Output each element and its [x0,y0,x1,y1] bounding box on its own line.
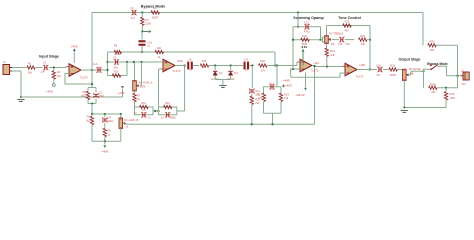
U2A inverting input wire [291,69,300,77]
summing box right edge [320,27,322,40]
svg-text:C12: C12 [269,81,274,85]
tone box top edge with R23 [326,26,328,36]
svg-text:TL072: TL072 [311,69,319,73]
svg-text:1k2: 1k2 [86,118,91,122]
svg-text:4k7: 4k7 [344,28,349,32]
capacitor C13 polarized [244,62,246,70]
svg-text:22k: 22k [255,101,260,105]
svg-text:7u: 7u [147,44,150,48]
svg-text:Input Stage: Input Stage [39,55,59,59]
resistor R3 [141,13,143,18]
svg-text:560k: 560k [114,52,120,56]
supply +4V5 near C12 [282,84,285,87]
capacitor C12 [270,84,272,89]
treble wiper wire [332,39,339,41]
resistor R8 on upper bus [114,50,121,53]
svg-text:C13: C13 [244,58,249,62]
C12 box left edge with R17 [263,87,265,93]
wire upper-mid bus [108,51,276,53]
U1B inverting input drop wire [158,69,160,111]
potentiometer RV TREBLE [325,36,329,44]
svg-text:R5: R5 [83,90,87,94]
resistor R4 on top bus [151,11,159,14]
svg-text:R6: R6 [87,115,91,119]
svg-text:C8: C8 [108,115,112,119]
U1B output wire [175,65,186,67]
op-amp U2B [345,63,357,76]
svg-text:R21: R21 [330,49,335,53]
wire R30 to jack riser [435,44,458,46]
svg-text:50n: 50n [114,65,119,69]
svg-text:R1: R1 [28,61,32,65]
capacitor C10 [305,24,307,29]
resistor R26 [389,68,397,71]
capacitor C8 [104,114,106,117]
wire R18 to U2A [267,65,297,67]
bottom branch with R13 [108,75,128,77]
supply +4V5 bottom arrow [104,141,106,144]
svg-text:560R: 560R [390,73,396,77]
svg-text:C16: C16 [147,40,152,44]
treble pot bottom to R21 [326,44,328,48]
svg-text:12k: 12k [331,42,336,46]
svg-text:C10: C10 [304,21,309,25]
svg-text:100n: 100n [99,94,105,98]
svg-text:1M: 1M [57,74,61,78]
resistor R24 [359,38,367,41]
U2A output wire [312,65,315,67]
svg-text:3n9: 3n9 [345,43,350,46]
resistor R6 [91,114,93,116]
svg-text:1k8: 1k8 [330,53,335,57]
svg-text:R28: R28 [450,92,455,96]
svg-text:560R: 560R [152,16,158,20]
capacitor C6 polarized vertical [139,40,146,42]
C12 box top edge [264,86,282,88]
svg-text:+4V5: +4V5 [71,44,78,48]
C12 box bottom edge [264,112,282,114]
ground at input jack [20,96,22,98]
connector J2 output jack [463,72,469,80]
svg-text:+18.2V: +18.2V [295,93,304,97]
svg-text:TL072: TL072 [356,74,364,78]
wire C1 to node A, junction [49,67,66,69]
svg-text:R7: R7 [137,93,141,97]
riser from row to C12 box [276,66,278,87]
svg-text:27k: 27k [258,96,263,100]
resistor R9 [103,128,106,136]
wire R26 to RV LEVEL pot [398,69,405,71]
svg-text:560k: 560k [302,42,308,46]
U1A inverting input loop wire [65,74,92,85]
mid row wire [108,61,161,63]
svg-text:R16: R16 [202,59,207,63]
svg-text:R2: R2 [57,70,61,74]
svg-text:1k: 1k [158,55,161,59]
svg-text:560k: 560k [170,117,176,120]
wire R16 to diode junctions [209,65,243,67]
svg-text:RV-LEVEL: RV-LEVEL [409,67,422,71]
svg-text:Rn-GAIN_A: Rn-GAIN_A [139,80,153,84]
C12 box right edge with R19 [280,87,282,93]
svg-text:TL072: TL072 [80,75,88,79]
svg-text:2uF: 2uF [41,70,46,74]
wire down to C6 vertical cap [141,32,143,40]
ground under diodes [219,85,226,87]
svg-text:J1: J1 [3,60,6,64]
svg-text:R8: R8 [114,44,118,48]
resistor R15 [250,96,253,104]
resistor R5 [87,88,89,92]
svg-text:10k: 10k [431,90,436,94]
svg-text:R12: R12 [165,101,170,105]
svg-text:U1B: U1B [177,59,183,63]
wire switch common to jack node [439,66,446,75]
svg-text:C2: C2 [130,6,134,10]
resistor R28 [445,88,447,92]
wiper wire of Rn-GAIN_A [140,85,142,87]
gain bus riser to U2A output [314,67,316,125]
svg-text:Rn-GAIN_B: Rn-GAIN_B [125,118,139,122]
diode D3 [230,66,232,71]
svg-text:C11: C11 [255,89,260,93]
junction between RC blocks [153,110,159,112]
svg-text:Out: Out [462,82,466,86]
svg-text:1M2: 1M2 [81,94,87,98]
svg-text:1u: 1u [148,116,151,119]
output ground bus [404,107,446,109]
wire R1 to C1 [36,67,43,69]
wire R29 to jack node riser [457,76,459,88]
resistor R2 [53,68,55,71]
svg-text:R19: R19 [284,92,289,96]
R5 C3 bottom edge [88,103,96,105]
svg-text:Output Stage: Output Stage [399,58,421,62]
svg-text:R4: R4 [153,6,157,10]
svg-text:D2: D2 [219,71,223,75]
svg-text:4u7: 4u7 [376,73,381,77]
capacitor C2 on top bus [132,10,134,15]
svg-text:470p: 470p [304,30,310,34]
svg-text:C14: C14 [338,43,343,46]
wire C6 to R16 [193,65,199,67]
svg-text:R20: R20 [302,34,307,38]
U2A to U2B feedback row [291,76,340,78]
wire switch lower contact to wiper riser [424,69,431,87]
svg-text:R240: R240 [430,82,437,86]
op-amp U2A [297,62,300,66]
svg-text:Tone Control: Tone Control [338,16,361,20]
svg-text:+4V5: +4V5 [118,91,125,95]
svg-text:12k: 12k [284,96,289,100]
svg-text:C1: C1 [43,61,47,65]
supply +4V5 arrow near ground bus [122,91,124,97]
resistor R7 [134,91,136,93]
svg-text:100k: 100k [450,96,456,100]
RV-LEVEL bottom wire [403,81,405,108]
bypass switch S1 [430,64,432,66]
resistor R21 [325,48,328,56]
svg-text:R24: R24 [360,34,365,38]
svg-text:1u: 1u [161,117,164,120]
svg-text:2k: 2k [137,97,140,101]
diode D2 [214,66,216,71]
op-amp U1B [163,59,175,72]
U2B inverting input wire [340,72,345,74]
ground bus wire to +4V5 arrow [21,96,123,98]
svg-text:U2B: U2B [360,63,366,67]
tone box right edge [369,26,371,70]
resistor R18 [259,64,267,67]
capacitor C5 on mid row [114,59,116,64]
ground at output [403,107,405,109]
svg-text:U2A: U2A [314,61,320,65]
capacitor C1 [44,65,46,70]
svg-text:TL072: TL072 [173,69,181,73]
capacitor C16 [378,67,380,72]
resistor R11 on upper bus [155,50,163,53]
RV-LEVEL wiper wire [409,74,411,76]
U2B output wire [357,69,377,71]
lower network bottom wire [92,140,121,142]
connector J1 input jack [3,65,10,75]
svg-text:R13: R13 [114,69,119,73]
wire R5C3 bottom to lower network [91,104,93,115]
svg-text:D3: D3 [234,71,238,75]
resistor R1 [27,66,35,69]
svg-text:C3: C3 [99,90,103,94]
svg-text:120k: 120k [145,21,151,25]
RC block R10 C7 [135,107,154,111]
svg-text:17k: 17k [142,109,147,112]
resistor R20 [301,38,309,41]
svg-text:C4: C4 [97,65,101,69]
capacitor C3 [95,88,97,93]
wire top bus [92,12,423,14]
svg-text:R18: R18 [260,59,265,63]
resistor R23 [343,24,351,27]
resistor R29 row [429,86,437,89]
wire jack tip to R1 [12,67,26,69]
potentiometer Rn-GAIN_B [120,114,122,118]
capacitor C6 polarized on row [187,62,189,70]
RC block R12 C9 [159,107,177,111]
svg-text:27k: 27k [261,69,266,73]
capacitor C4 on output wire [97,67,99,72]
svg-text:R26: R26 [390,63,395,67]
net arrow right [143,31,149,33]
wire C13 to R18 [249,65,254,67]
svg-text:R30: R30 [430,39,435,43]
potentiometer Rn-GAIN_A [134,62,136,81]
wire C16 to R26 [383,69,389,71]
top chain R30 from top bus [422,13,424,46]
feedback riser to U1B output row [184,66,186,112]
svg-text:4u7: 4u7 [131,16,136,20]
svg-text:+4V5: +4V5 [46,90,53,94]
svg-text:100n: 100n [108,119,114,123]
summing box top edge [293,26,321,28]
svg-text:6k8: 6k8 [430,48,435,52]
svg-text:R11: R11 [157,46,162,50]
svg-text:R3: R3 [145,18,149,22]
wire R3 to net arrow [141,26,143,32]
U2A power stub +18.2V [305,73,307,88]
wire mid row into U1B +in [161,61,164,63]
stub from box bottom to gain bus [272,113,274,124]
svg-text:+4V5: +4V5 [283,78,290,82]
R20 row of summing box [293,39,321,41]
parallel R5 C3 network [88,87,96,89]
svg-text:C6: C6 [188,58,192,62]
lower network top wire [92,113,121,115]
svg-text:1k: 1k [126,125,129,129]
wire summing box to treble pot pins [321,39,323,41]
svg-text:R23: R23 [345,20,350,24]
wire B2 to feedback riser [177,110,185,112]
svg-text:1k: 1k [108,132,111,136]
summing box left edge [292,27,294,69]
svg-text:10k: 10k [361,42,366,46]
svg-text:C16: C16 [376,63,381,67]
svg-text:R9: R9 [108,129,112,133]
node A vertical [107,52,109,76]
op-amp U1A [69,64,81,77]
vertical feedback wire x=92 from top bus [91,13,93,88]
resistor R16 [200,64,208,67]
svg-text:RV TREBLE: RV TREBLE [329,31,344,35]
svg-text:100k: 100k [140,84,146,88]
wire to output jack [447,75,462,77]
svg-text:10k: 10k [28,71,33,75]
wire gain bus from Rn-GAIN_B wiper [123,123,314,124]
upper bus corner down to U2A +in row [274,52,276,66]
summing box riser from top bus [297,13,299,27]
capacitor C14 [340,37,342,42]
svg-text:C5: C5 [113,56,117,60]
capacitor C11 [251,66,253,88]
potentiometer RV-LEVEL [403,69,407,80]
svg-text:+4V5: +4V5 [285,83,292,87]
U1A output wire [81,69,108,71]
svg-text:+4V5: +4V5 [101,150,108,154]
wire C14 to R24 [345,39,355,41]
wire node A to U1A +in [66,67,69,68]
svg-text:R17: R17 [257,92,262,96]
resistor R30 [428,44,436,47]
svg-text:R10: R10 [141,101,146,105]
supply pin +4V5 under R2 [53,80,55,84]
wire jack sleeve down [20,71,22,97]
diode ground wire [214,76,216,80]
